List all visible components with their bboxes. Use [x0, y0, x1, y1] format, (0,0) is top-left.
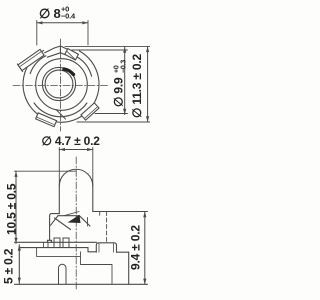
svg-text:−0.4: −0.4: [61, 12, 76, 21]
notch line bottom: [56, 110, 66, 120]
lug D bottom-left: [36, 113, 57, 127]
label d11.3: [130, 53, 144, 118]
extension line phi8 left: [36, 21, 38, 46]
svg-text:∅ 8: ∅ 8: [39, 6, 61, 21]
dimension line d4.7: [59, 149, 93, 151]
hub ring outer: [42, 67, 75, 100]
bottom block right edge: [128, 252, 130, 284]
lug A upper-left: [17, 48, 45, 71]
arrow d4.7 right: [87, 148, 93, 151]
arrow d11.3 bottom: [146, 116, 149, 122]
lug B top-right: [65, 49, 79, 60]
circle d8: [36, 59, 88, 111]
arrow d11.3 top: [146, 46, 149, 52]
arrow 10.5 bottom: [14, 238, 17, 244]
extension line d11.3 top: [65, 45, 150, 47]
centerline horizontal top view: [13, 84, 108, 86]
svg-text:−0.3: −0.3: [121, 60, 128, 73]
socket surface right / ext 9.4 top: [93, 211, 148, 213]
bottom block top right: [117, 251, 129, 253]
stub rect 2: [63, 238, 69, 248]
svg-text:∅ 4.7 ± 0.2: ∅ 4.7 ± 0.2: [42, 134, 101, 148]
arrow phi8 left: [37, 21, 43, 24]
extension line d11.3 bottom: [77, 121, 150, 123]
notch top flag: [45, 46, 61, 57]
wedge dark triangle: [68, 215, 81, 223]
svg-text:10.5 ± 0.5: 10.5 ± 0.5: [5, 183, 19, 235]
label d4.7: [42, 134, 101, 148]
extension line d4.7 right: [92, 148, 94, 187]
centerline vertical side view: [75, 157, 77, 291]
svg-text:5 ± 0.2: 5 ± 0.2: [2, 248, 16, 284]
svg-text:9.4 ± 0.2: 9.4 ± 0.2: [129, 225, 143, 270]
extension line d9.9 top: [72, 49, 128, 51]
arrow d9.9 bottom: [123, 109, 126, 115]
label 9.4: [129, 225, 143, 270]
extension line 10.5 top: [15, 170, 76, 172]
wedge inner vertical: [87, 218, 89, 227]
dim label phi8: [39, 5, 76, 22]
mid arc d9.9 top-left: [30, 56, 46, 74]
mid arc d9.9 top-right: [77, 57, 92, 77]
bulb left side: [58, 186, 60, 214]
arrow d9.9 top: [123, 47, 126, 53]
dimension line d11.3: [147, 46, 149, 122]
stub rect 1: [54, 238, 60, 248]
bottom block step: [88, 248, 96, 252]
arrow 9.4 bottom: [143, 279, 146, 285]
internal right verticals: [81, 252, 113, 284]
internal step left: [37, 248, 81, 257]
label 10.5: [5, 183, 19, 235]
arrow 10.5 top: [14, 171, 17, 177]
lug C bottom-right: [81, 103, 99, 120]
centerline vertical top view: [59, 39, 61, 131]
wedge diagonal: [55, 218, 71, 230]
right block inner lines: [99, 244, 114, 253]
bottom block left edge / dim line 5: [18, 245, 20, 283]
dimension line d9.9: [124, 47, 126, 115]
wedge upper diagonal: [64, 212, 79, 216]
hidden line right: [106, 212, 108, 242]
arrow 5 bottom: [18, 278, 21, 284]
wedge right slant: [79, 216, 90, 226]
extension line d9.9 bottom: [95, 113, 128, 115]
U slot: [59, 264, 67, 284]
socket shoulder left: [48, 214, 60, 243]
dimension line phi8: [37, 22, 88, 24]
dimension line 10.5: [15, 171, 17, 243]
label 5: [2, 248, 16, 284]
base bottom line: [15, 241, 97, 243]
wedge top: [58, 215, 79, 217]
arrow d4.7 left: [59, 148, 65, 151]
socket step right: [99, 212, 101, 216]
right block: [96, 243, 116, 252]
extension line d4.7 left: [58, 148, 60, 187]
arrow 5 top: [18, 245, 21, 251]
arrow 9.4 top: [143, 212, 146, 218]
hub key dark mark: [64, 69, 74, 75]
base stubs: [44, 242, 49, 247]
extension line phi8 right: [87, 21, 89, 46]
label d9.9: [112, 60, 128, 107]
wedge left slant: [51, 216, 59, 226]
mid arc d9.9 bottom: [34, 103, 87, 117]
bulb right side: [92, 186, 94, 212]
arrow phi8 right: [82, 21, 88, 24]
bottom block top left: [19, 247, 88, 249]
bulb dome: [59, 169, 93, 186]
svg-text:∅ 9.9: ∅ 9.9: [112, 77, 126, 107]
hub ring inner: [45, 70, 73, 98]
svg-text:∅ 11.3 ± 0.2: ∅ 11.3 ± 0.2: [130, 53, 144, 118]
outer circle d11.3 (gap at top notch): [23, 51, 99, 123]
svg-text:+0: +0: [114, 65, 121, 73]
bottom block bottom / ext 9.4 bottom: [15, 283, 148, 285]
dimension line 9.4: [144, 212, 146, 285]
